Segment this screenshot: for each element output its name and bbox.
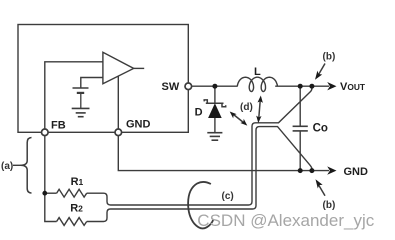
capacitor Co plates <box>293 126 308 131</box>
wire FB pin down to divider node <box>44 132 46 193</box>
diode anode lead wire <box>214 118 216 133</box>
op-amp ground leg wire <box>117 76 119 133</box>
inductor L <box>237 77 277 91</box>
pin FB circle <box>42 129 49 136</box>
svg-text:(a): (a) <box>1 161 13 172</box>
feedback trace B (R2 to GND) <box>87 127 312 222</box>
wire GND pin to ground rail <box>118 132 329 170</box>
svg-text:CSDN @Alexander_yjc: CSDN @Alexander_yjc <box>197 211 374 230</box>
(b) top arrow shaft <box>318 64 325 76</box>
wire FB node to R1 <box>45 192 57 194</box>
svg-text:L: L <box>254 66 261 78</box>
(a) brace <box>21 138 32 194</box>
(d) vertical arrowheads <box>258 96 263 103</box>
wire FB node down to R2 <box>45 193 57 221</box>
svg-text:VOUT: VOUT <box>340 81 366 93</box>
svg-text:GND: GND <box>126 119 151 131</box>
op-amp U1 <box>103 52 134 83</box>
reference battery VREF <box>73 88 89 108</box>
(b) bottom arrow shaft <box>318 184 325 196</box>
VOUT arrowhead <box>327 82 336 90</box>
svg-text:GND: GND <box>344 166 369 178</box>
ground (reference) <box>72 108 90 116</box>
resistor R2 <box>57 218 87 226</box>
junction dot FB divider node <box>42 191 47 196</box>
(a) dash to brace <box>13 164 21 166</box>
svg-text:R1: R1 <box>71 176 84 188</box>
svg-text:D: D <box>195 106 203 118</box>
junction dot Vout-Co <box>298 84 303 89</box>
(b) bottom arrowhead <box>316 179 323 188</box>
svg-text:(b): (b) <box>323 200 336 211</box>
GND arrowhead <box>327 166 336 174</box>
svg-text:(c): (c) <box>222 191 234 202</box>
(c) coupling loop ellipse <box>188 182 213 229</box>
(d) diagonal double arrow shaft <box>234 115 244 123</box>
diode cathode lead wire <box>214 86 216 103</box>
wire Co top lead <box>299 86 301 126</box>
svg-text:R2: R2 <box>70 203 83 215</box>
junction dot GND-trace <box>309 168 314 173</box>
op-amp output stub <box>134 67 145 69</box>
(b) top arrowhead <box>315 71 322 80</box>
pin GND circle <box>115 129 122 136</box>
diode D schottky cathode bar <box>204 100 226 107</box>
feedback trace A (R1 to VOUT) <box>87 86 312 205</box>
svg-text:FB: FB <box>51 119 66 131</box>
pin SW circle <box>185 83 192 90</box>
svg-text:(b): (b) <box>323 52 336 63</box>
resistor R1 <box>57 189 87 197</box>
wire FB to op-amp noninverting input <box>45 62 103 133</box>
svg-text:SW: SW <box>162 81 180 93</box>
svg-text:(d): (d) <box>240 102 253 113</box>
junction dot Vout-trace <box>309 84 314 89</box>
IC outline box <box>18 25 188 133</box>
junction dot SW-diode <box>212 84 217 89</box>
wire SW to inductor <box>188 85 237 87</box>
junction dot GND-Co <box>298 168 303 173</box>
ground (diode) <box>207 133 222 141</box>
wire Co bottom lead <box>299 131 301 171</box>
wire inductor to VOUT arrow <box>275 85 329 87</box>
(d) vertical double arrow shaft <box>259 100 261 120</box>
(d) diagonal arrowheads <box>230 112 237 119</box>
diode D triangle <box>208 103 222 118</box>
wire reference to op-amp inverting input <box>81 78 103 89</box>
svg-text:Co: Co <box>313 123 328 135</box>
